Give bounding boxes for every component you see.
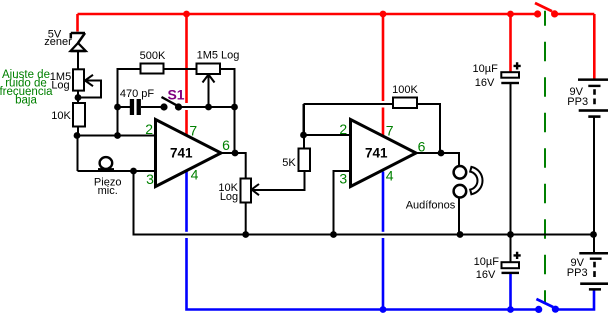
svg-text:3: 3	[339, 171, 347, 187]
svg-text:3: 3	[146, 171, 154, 187]
svg-text:2: 2	[339, 121, 347, 137]
svg-text:741: 741	[365, 145, 388, 160]
svg-text:Log: Log	[51, 80, 69, 92]
svg-text:16V: 16V	[475, 77, 495, 89]
svg-text:500K: 500K	[140, 50, 166, 62]
svg-text:16V: 16V	[476, 269, 496, 281]
svg-text:6: 6	[418, 138, 426, 154]
svg-text:4: 4	[386, 167, 394, 183]
svg-text:Audífonos: Audífonos	[406, 200, 456, 212]
svg-text:Log: Log	[220, 191, 238, 203]
svg-text:baja: baja	[15, 95, 37, 107]
svg-text:4: 4	[191, 167, 199, 183]
svg-text:7: 7	[386, 123, 394, 139]
svg-text:PP3: PP3	[567, 96, 588, 108]
svg-text:PP3: PP3	[567, 267, 588, 279]
svg-text:10K: 10K	[51, 110, 71, 122]
svg-text:1M5 Log: 1M5 Log	[197, 50, 240, 62]
svg-text:470 pF: 470 pF	[120, 88, 155, 100]
svg-text:6: 6	[222, 137, 230, 153]
svg-text:7: 7	[189, 122, 197, 138]
svg-text:mic.: mic.	[98, 185, 118, 197]
svg-text:10µF: 10µF	[474, 256, 500, 268]
svg-text:zener: zener	[44, 36, 72, 48]
svg-text:S1: S1	[167, 86, 184, 102]
svg-text:100K: 100K	[392, 84, 418, 96]
svg-text:741: 741	[170, 145, 193, 160]
svg-text:2: 2	[145, 121, 153, 137]
svg-text:10µF: 10µF	[473, 63, 499, 75]
svg-text:5K: 5K	[282, 157, 296, 169]
